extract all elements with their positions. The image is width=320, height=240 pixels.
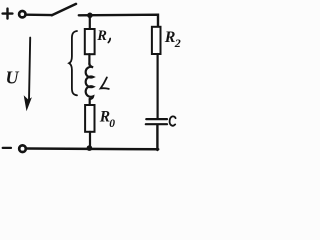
svg-text:U: U — [6, 68, 20, 88]
resistor R0 — [85, 105, 94, 132]
wire bottom — [27, 147, 158, 150]
resistor R2 — [152, 27, 161, 54]
capacitor C — [146, 119, 167, 124]
switch S — [52, 4, 76, 15]
node A — [87, 13, 93, 19]
brace coil group — [69, 31, 77, 95]
svg-text:2: 2 — [174, 36, 181, 50]
wire — [89, 15, 91, 29]
svg-text:R: R — [96, 28, 107, 44]
plus sign — [3, 9, 13, 19]
wire top — [79, 15, 158, 27]
wire — [26, 13, 52, 16]
label C — [170, 116, 176, 125]
arrow U direction — [24, 38, 32, 112]
wire right middle — [157, 54, 159, 118]
wire — [88, 54, 90, 65]
label L — [101, 77, 109, 89]
subscript 1 — [108, 39, 110, 43]
terminal T1 — [19, 11, 25, 17]
minus sign — [3, 147, 11, 149]
svg-text:0: 0 — [109, 118, 115, 130]
wire — [89, 99, 91, 105]
wire — [89, 132, 91, 148]
inductor L — [86, 63, 93, 99]
wire right bottom — [156, 125, 158, 150]
terminal T2 — [19, 145, 26, 152]
node B — [87, 145, 93, 151]
resistor R1 — [85, 29, 95, 54]
